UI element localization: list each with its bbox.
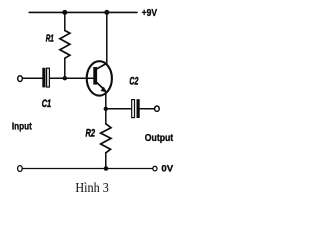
svg-text:Output: Output <box>145 133 174 145</box>
svg-text:C2: C2 <box>129 74 139 87</box>
svg-text:R1: R1 <box>46 32 54 44</box>
wire: C2 to output terminal <box>140 108 155 110</box>
svg-text:Hình 3: Hình 3 <box>75 181 108 196</box>
capacitor C2 <box>132 99 140 118</box>
wire: R2 to ground rail <box>105 153 107 169</box>
svg-text:C1: C1 <box>42 98 51 110</box>
svg-text:0V: 0V <box>161 163 173 174</box>
node: rail-R1 junction <box>62 10 67 15</box>
resistor R2 <box>101 124 111 153</box>
ground terminal left <box>18 166 23 172</box>
wire: input terminal to C1 <box>22 77 42 79</box>
output terminal <box>155 106 160 111</box>
input terminal <box>18 76 23 82</box>
wire: C1 to transistor base <box>50 77 93 79</box>
svg-text:Input: Input <box>12 121 32 132</box>
ground terminal right <box>153 166 157 171</box>
wire: emitter node to C2 <box>106 108 132 110</box>
node: R2-rail junction <box>104 166 109 171</box>
node: base junction <box>63 76 67 80</box>
wire: 0V bottom rail <box>22 168 153 170</box>
node: rail-collector junction <box>104 10 109 15</box>
node: emitter junction <box>104 107 108 111</box>
wire: R1 to base node <box>64 58 66 78</box>
svg-text:R2: R2 <box>86 127 96 140</box>
wire: collector to rail <box>106 12 108 63</box>
capacitor C1 <box>42 68 49 88</box>
wire: emitter node to R2 <box>105 109 107 124</box>
wire: rail to R1 <box>64 12 66 30</box>
wire: emitter to emitter node <box>105 92 107 109</box>
transistor Q1 (NPN) <box>87 61 112 95</box>
svg-text:+9V: +9V <box>142 7 158 19</box>
resistor R1 <box>60 31 70 59</box>
wire: +9V top rail <box>29 11 137 13</box>
